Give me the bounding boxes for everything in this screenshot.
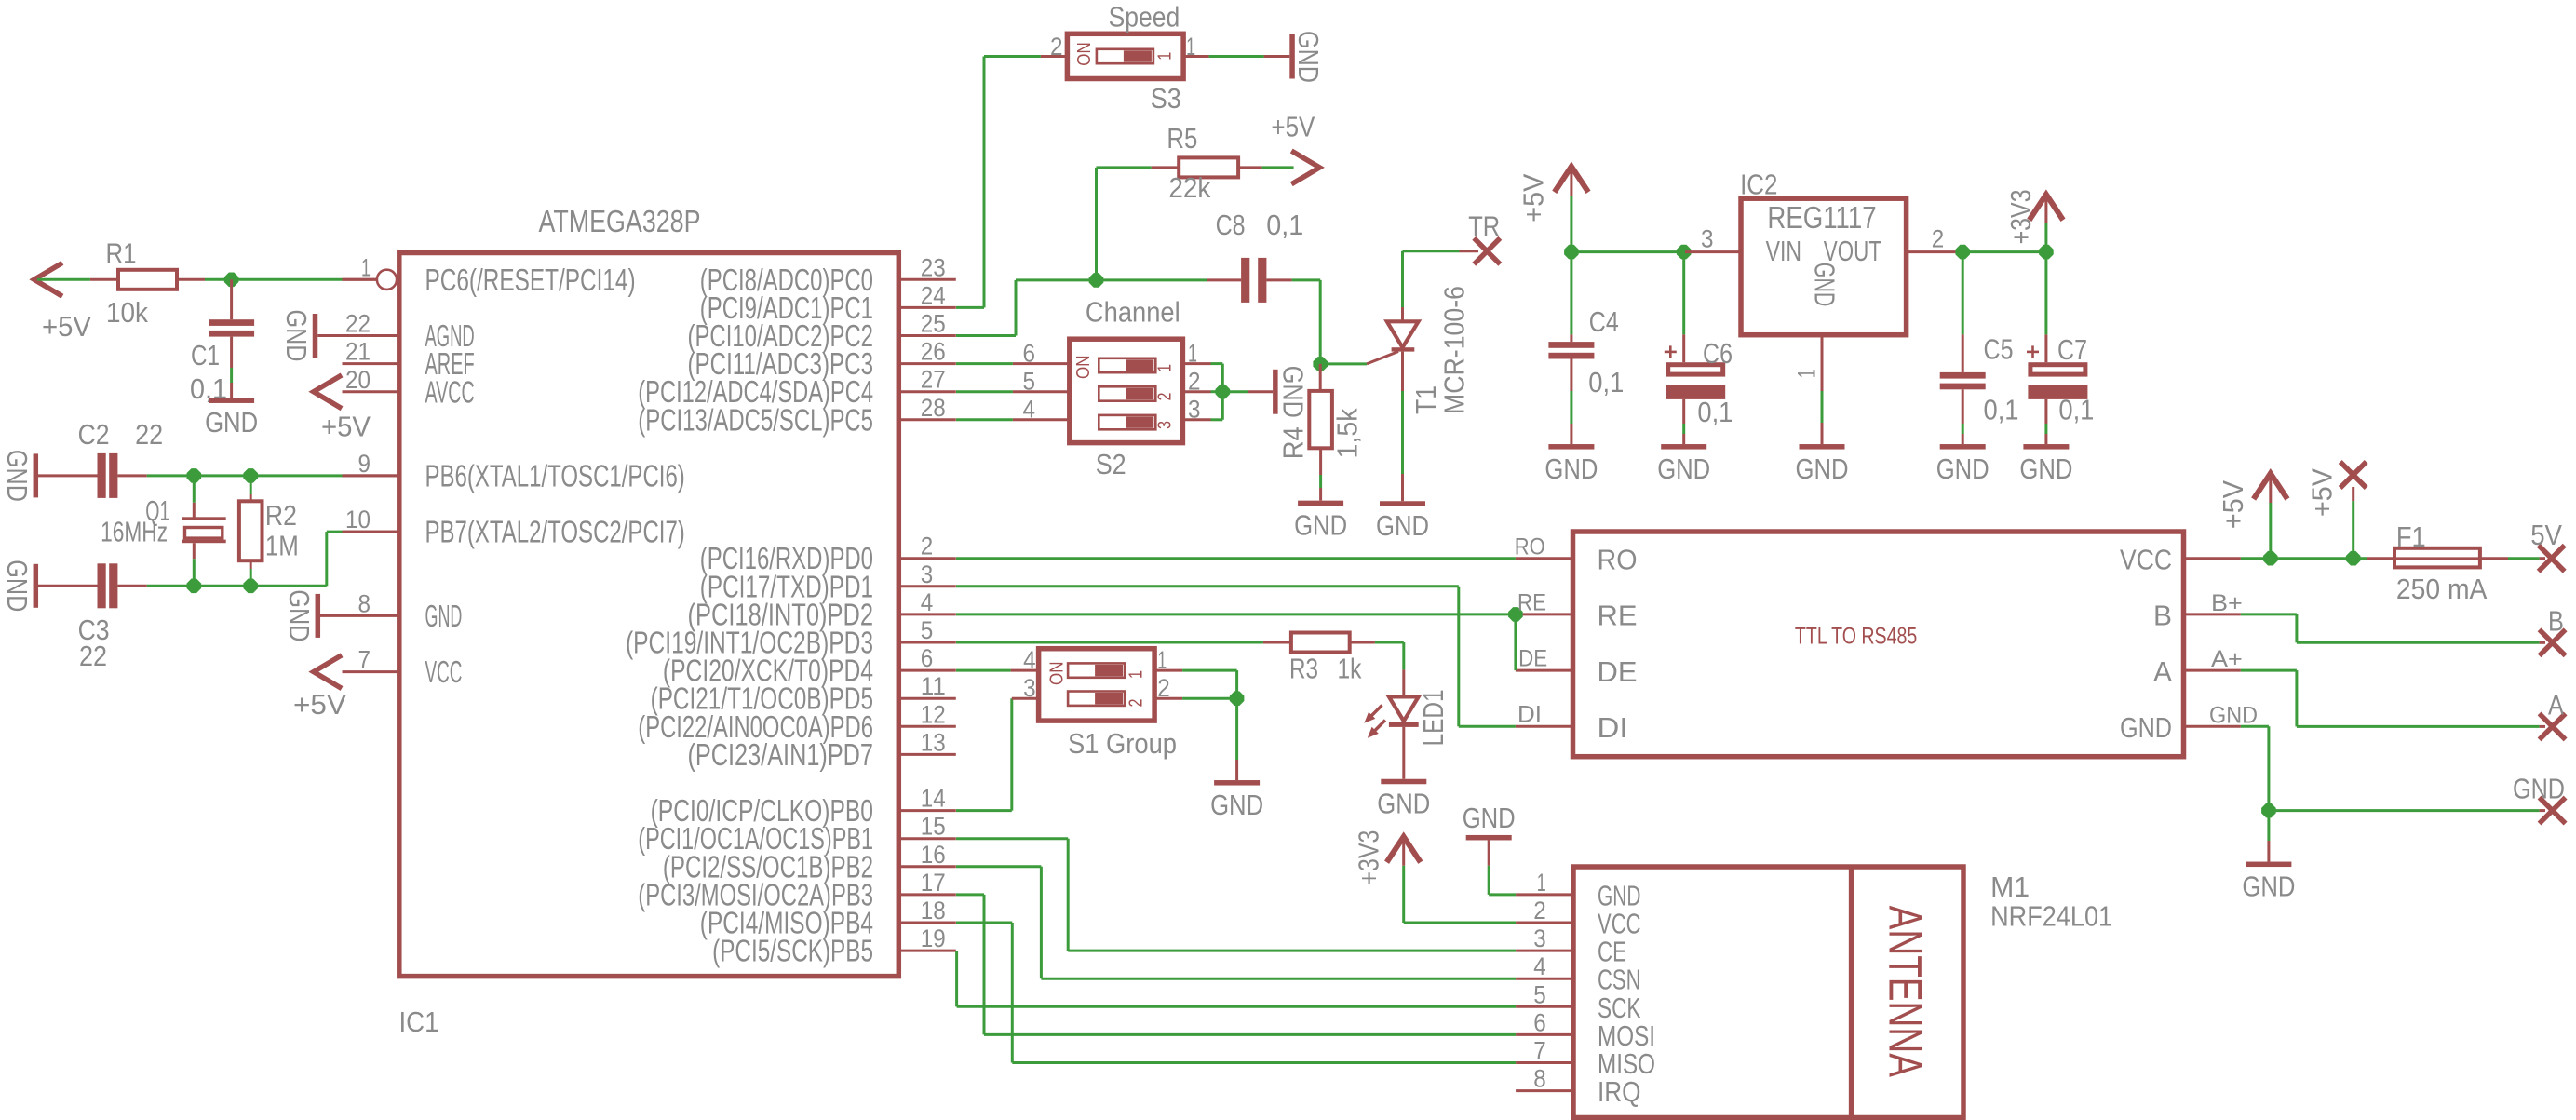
wire C4 junction to C6 junction xyxy=(1571,250,1684,253)
ground C3 xyxy=(34,564,39,608)
IC1 pin 16 (PCI2/SS/OC1B)PB2 stub xyxy=(898,865,956,868)
wire TR net xyxy=(1403,250,1460,252)
IC1 pin 21 AREF stub xyxy=(343,362,399,365)
switch S1 Group xyxy=(1011,669,1039,672)
svg-text:GND: GND xyxy=(1376,509,1429,542)
svg-text:ON: ON xyxy=(1046,662,1067,686)
wire R4 to GND xyxy=(1319,475,1322,488)
power arrow +3V3 at C7 xyxy=(2030,195,2061,218)
svg-text:1,5k: 1,5k xyxy=(1331,408,1364,458)
svg-text:23: 23 xyxy=(921,253,946,281)
wire C2 to Q1 junction xyxy=(147,474,195,477)
svg-text:9: 9 xyxy=(358,450,371,478)
wire C5 junction to C7 junction xyxy=(1962,250,2046,253)
ground at GND pin 8 xyxy=(316,594,321,638)
wire XTAL1 to IC pin 9 xyxy=(250,474,342,477)
wire S2 pin3 jog xyxy=(1211,418,1223,421)
svg-text:3: 3 xyxy=(1701,224,1714,252)
wire R2 bottom to junction xyxy=(250,569,252,586)
svg-text:+5V: +5V xyxy=(293,688,346,721)
IC1 pin 6 (PCI20/XCK/T0)PD4 stub xyxy=(898,669,956,672)
svg-text:0,1: 0,1 xyxy=(1984,394,2019,426)
IC1 pin 10 PB7(XTAL2/TOSC2/PCI7) stub xyxy=(343,531,399,533)
svg-text:2: 2 xyxy=(1154,393,1175,401)
svg-text:GND: GND xyxy=(280,310,313,362)
svg-text:20: 20 xyxy=(345,366,371,394)
IC1 pin 24 (PCI9/ADC1)PC1 stub xyxy=(898,306,956,309)
LED LED1 xyxy=(1402,669,1405,696)
junction +5V at C4 xyxy=(1564,245,1579,260)
RS485 pin B right lead xyxy=(2184,613,2241,615)
wire pin 24 to S3 vertical xyxy=(956,306,984,309)
IC1 pin 7 VCC stub xyxy=(343,670,399,673)
NRF pin 6 MOSI stub xyxy=(1516,1033,1573,1036)
IC IC1 ATMEGA328P box xyxy=(399,253,899,977)
RS485 pin VCC right lead xyxy=(2184,557,2241,560)
svg-text:26: 26 xyxy=(921,338,946,366)
svg-text:F1: F1 xyxy=(2396,520,2426,553)
IC1 pin 25 (PCI10/ADC2)PC2 stub xyxy=(898,334,956,337)
wire +3V3 riser to NRF VCC xyxy=(1402,866,1405,923)
svg-text:22k: 22k xyxy=(1168,171,1210,204)
svg-text:1: 1 xyxy=(361,253,371,281)
wire NRF GND riser xyxy=(1488,866,1490,895)
svg-text:250 mA: 250 mA xyxy=(2396,573,2488,605)
svg-text:2: 2 xyxy=(1157,674,1170,702)
RS485 pin RE lead xyxy=(1516,613,1573,615)
wire VCC junction to +5V-X junction xyxy=(2271,557,2353,560)
svg-text:8: 8 xyxy=(1533,1065,1546,1093)
wire junction to Q1 top xyxy=(193,476,196,503)
junction R4/T1 gate xyxy=(1313,357,1328,371)
svg-text:27: 27 xyxy=(921,366,946,394)
wire +3V3 arrow to junction xyxy=(2044,223,2047,252)
svg-text:13: 13 xyxy=(921,728,946,756)
svg-text:R4: R4 xyxy=(1277,426,1310,459)
wire CE riser xyxy=(1067,839,1070,951)
svg-text:19: 19 xyxy=(921,924,946,952)
IC1 pin 14 (PCI0/ICP/CLKO)PB0 stub xyxy=(898,809,956,812)
svg-text:ON: ON xyxy=(1074,42,1095,66)
svg-text:18: 18 xyxy=(921,897,946,924)
svg-text:IC2: IC2 xyxy=(1740,169,1777,201)
svg-text:22: 22 xyxy=(345,310,371,338)
svg-text:1: 1 xyxy=(1186,33,1195,61)
ground below C1 xyxy=(209,398,254,403)
IC1 pin 17 (PCI3/MOSI/OC2A)PB3 stub xyxy=(898,893,956,896)
RS485 pin DE lead xyxy=(1516,669,1573,672)
svg-text:+5V: +5V xyxy=(2305,468,2338,517)
ground at S3 xyxy=(1264,55,1290,58)
NRF pin 3 CE stub xyxy=(1516,950,1573,952)
svg-text:DE: DE xyxy=(1518,645,1547,671)
svg-text:C6: C6 xyxy=(1703,337,1733,370)
svg-text:(PCI13/ADC5/SCL)PC5: (PCI13/ADC5/SCL)PC5 xyxy=(638,402,873,437)
svg-text:12: 12 xyxy=(921,700,946,728)
svg-text:GND: GND xyxy=(1936,452,1989,485)
terminal X A xyxy=(2540,713,2566,739)
ground at S2 xyxy=(1222,390,1248,393)
svg-text:C4: C4 xyxy=(1589,305,1619,338)
wire XTAL2 jog to pin 10 horizontal xyxy=(250,585,327,587)
ground at GND rail xyxy=(2246,862,2291,868)
power arrow +5V at AVCC pin 20 xyxy=(314,376,340,407)
junction R5 branch xyxy=(1089,273,1104,288)
no-connect X at TR xyxy=(1474,238,1500,264)
wire Q1 to R2 junction top xyxy=(194,474,250,477)
wire net B riser xyxy=(2295,614,2298,642)
wire S1 pin1 jog xyxy=(1182,669,1237,672)
svg-text:AVCC: AVCC xyxy=(425,374,475,409)
svg-text:3: 3 xyxy=(1023,674,1036,702)
wire XTAL2 to IC pin 10 xyxy=(327,531,343,533)
IC1 pin 1 PC6(/RESET/PCI14) stub xyxy=(343,278,377,281)
wire C6 junction to IC2 pin 3 xyxy=(1684,250,1685,253)
wire IC pin 14 to S1 riser horizontal xyxy=(956,809,1012,812)
wire corner down to R4 junction xyxy=(1319,280,1322,364)
wire S2 pin1 jog xyxy=(1211,362,1223,365)
svg-text:5V: 5V xyxy=(2530,519,2562,551)
wire net RO from IC pin 2 xyxy=(956,557,1516,560)
svg-text:IRQ: IRQ xyxy=(1598,1075,1641,1108)
wire S2 pin2 jog xyxy=(1211,390,1223,393)
terminal X 5V xyxy=(2539,546,2565,572)
svg-text:+5V: +5V xyxy=(1517,173,1550,222)
svg-text:15: 15 xyxy=(921,813,946,841)
switch S2 Channel xyxy=(1013,362,1070,365)
NRF pin 1 GND stub xyxy=(1516,893,1573,896)
junction VCC at X riser xyxy=(2346,551,2361,566)
svg-text:1: 1 xyxy=(1188,340,1197,368)
wire R5 to +5V arrow xyxy=(1262,166,1294,169)
svg-text:GND: GND xyxy=(1294,508,1347,541)
wire SCK to NRF pin 5 xyxy=(957,1005,1517,1008)
wire junction to R2 top xyxy=(250,476,252,494)
resistor R4 xyxy=(1319,364,1322,391)
capacitor C2 xyxy=(38,474,98,477)
svg-text:6: 6 xyxy=(1023,340,1036,368)
svg-text:25: 25 xyxy=(921,310,946,338)
svg-text:C1: C1 xyxy=(191,339,220,371)
wire IC pin 17 to MOSI horizontal xyxy=(956,893,984,896)
thyristor T1 MCR-100-6 xyxy=(1367,352,1398,364)
wire junction up to R5 xyxy=(1095,168,1098,280)
wire IC pin 18 to MISO horizontal xyxy=(956,922,1012,924)
ground below IC2 xyxy=(1800,444,1845,450)
IC1 pin 28 (PCI13/ADC5/SCL)PC5 stub xyxy=(898,418,956,421)
wire net B to terminal xyxy=(2297,641,2540,644)
svg-text:B: B xyxy=(2153,600,2172,632)
capacitor C7 xyxy=(2044,252,2047,335)
svg-text:MCR-100-6: MCR-100-6 xyxy=(1437,286,1470,414)
wire C3 to Q1 junction bottom xyxy=(147,585,195,587)
wire C5 to GND xyxy=(1962,424,1964,434)
svg-text:M1: M1 xyxy=(1990,870,2030,903)
svg-text:ANTENNA: ANTENNA xyxy=(1880,906,1932,1078)
svg-text:1k: 1k xyxy=(1338,653,1362,685)
NRF pin 4 CSN stub xyxy=(1516,978,1573,980)
svg-text:RE: RE xyxy=(1517,589,1546,615)
IC1 pin 19 (PCI5/SCK)PB5 stub xyxy=(898,950,956,952)
wire CE to NRF pin 3 xyxy=(1068,950,1516,952)
svg-text:GND: GND xyxy=(1809,263,1841,307)
svg-text:22: 22 xyxy=(79,640,107,672)
junction XTAL1 at Q1 xyxy=(187,468,202,483)
svg-text:4: 4 xyxy=(1023,646,1036,674)
svg-text:TR: TR xyxy=(1468,210,1500,243)
wire S1 right bus down xyxy=(1235,670,1238,698)
wire T1 cathode down xyxy=(1401,391,1404,474)
svg-text:0,1: 0,1 xyxy=(1266,209,1303,241)
junction at C5 xyxy=(1955,245,1970,260)
wire net A to terminal xyxy=(2297,725,2540,728)
svg-text:0,1: 0,1 xyxy=(1588,366,1624,398)
fuse F1 250mA xyxy=(2367,557,2394,560)
wire MOSI riser xyxy=(983,895,986,1035)
wire S2 right bus vertical xyxy=(1221,364,1224,420)
svg-text:11: 11 xyxy=(921,672,946,700)
svg-text:GND: GND xyxy=(2209,702,2258,728)
svg-text:ON: ON xyxy=(1073,356,1094,380)
wire S3 vertical riser xyxy=(983,57,986,308)
capacitor C5 xyxy=(1962,252,1964,335)
svg-text:Speed: Speed xyxy=(1109,1,1180,34)
svg-text:16MHz: 16MHz xyxy=(101,516,168,548)
svg-text:1: 1 xyxy=(1157,646,1167,674)
ground below LED1 xyxy=(1381,779,1426,785)
wire junction to pin1 xyxy=(232,278,343,281)
LED1 light arrow 1 xyxy=(1369,706,1382,719)
wire RS485 VCC to junction xyxy=(2241,557,2271,560)
wire IC pin 15 to CE horizontal xyxy=(956,837,1068,840)
IC1 pin 18 (PCI4/MISO)PB4 stub xyxy=(898,922,956,924)
NRF pin 5 SCK stub xyxy=(1516,1005,1573,1008)
svg-text:3: 3 xyxy=(1188,396,1201,424)
svg-text:R2: R2 xyxy=(265,499,297,532)
wire S1 pin 3 riser xyxy=(1010,698,1013,810)
wire net GND jog 1 xyxy=(2241,725,2269,728)
svg-text:GND: GND xyxy=(205,406,258,439)
wire C1 to GND xyxy=(230,368,233,383)
svg-text:DI: DI xyxy=(1598,711,1628,744)
svg-text:21: 21 xyxy=(345,338,371,366)
wire IC pin 16 to CSN horizontal xyxy=(956,865,1041,868)
IC2 pin 2 lead xyxy=(1907,250,1962,253)
ground below C6 xyxy=(1661,444,1706,450)
IC1 pin 11 (PCI21/T1/OC0B)PD5 stub xyxy=(898,697,956,700)
svg-text:A: A xyxy=(2548,688,2564,721)
svg-text:REG1117: REG1117 xyxy=(1767,200,1876,235)
svg-text:GND: GND xyxy=(283,589,316,641)
svg-text:3: 3 xyxy=(1154,421,1175,429)
wire riser to S3 pin 2 xyxy=(984,55,1041,58)
svg-text:1M: 1M xyxy=(265,529,299,561)
wire net B jog 1 xyxy=(2241,613,2297,615)
wire net RE from IC pin 4 xyxy=(956,613,1516,615)
svg-text:B: B xyxy=(2548,604,2564,637)
wire net DI to pin xyxy=(1459,725,1516,728)
svg-text:RE: RE xyxy=(1598,600,1638,632)
power arrow +5V at VCC pin 7 xyxy=(314,656,340,687)
wire pin 27 to S2 pin 5 xyxy=(956,390,1013,393)
wire SCK riser at IC pin 19 xyxy=(955,951,958,1006)
power arrow +5V at VCC rail xyxy=(2255,474,2286,497)
svg-text:16: 16 xyxy=(921,841,946,869)
svg-text:C7: C7 xyxy=(2057,333,2087,366)
capacitor C1 xyxy=(230,279,233,319)
svg-text:PC6(/RESET/PCI14): PC6(/RESET/PCI14) xyxy=(425,263,636,297)
svg-text:+5V: +5V xyxy=(321,411,371,443)
no-connect X at +5V xyxy=(2340,462,2367,488)
svg-text:GND: GND xyxy=(1292,31,1325,83)
wire GND junction down to ground xyxy=(2267,811,2270,841)
wire pin 28 to S2 pin 4 xyxy=(956,418,1013,421)
svg-text:R5: R5 xyxy=(1167,122,1197,155)
svg-text:GND: GND xyxy=(1463,802,1516,834)
svg-text:5: 5 xyxy=(1533,980,1546,1008)
wire S1 common to GND xyxy=(1235,698,1238,760)
svg-text:GND: GND xyxy=(1657,452,1710,485)
power arrow +5V at R5 xyxy=(1294,152,1320,182)
RS485 pin A right lead xyxy=(2184,669,2241,672)
svg-text:GND: GND xyxy=(1377,788,1430,820)
wire XTAL2 jog vertical xyxy=(325,532,328,586)
wire RE junction down to DE xyxy=(1514,614,1517,670)
wire CSN to NRF pin 4 xyxy=(1041,978,1516,980)
svg-text:S3: S3 xyxy=(1151,82,1181,115)
svg-text:IC1: IC1 xyxy=(399,1005,439,1038)
svg-text:7: 7 xyxy=(1533,1037,1546,1065)
svg-text:GND: GND xyxy=(1,560,34,612)
svg-text:RO: RO xyxy=(1598,544,1638,576)
svg-text:GND: GND xyxy=(2019,452,2072,485)
IC1 pin 26 (PCI11/ADC3)PC3 stub xyxy=(898,362,956,365)
ground C2 xyxy=(34,453,39,497)
wire MISO to NRF pin 7 xyxy=(1012,1061,1516,1064)
IC1 pin 27 (PCI12/ADC4/SDA)PC4 stub xyxy=(898,390,956,393)
wire riser to R5 xyxy=(1097,166,1152,169)
ground below C5 xyxy=(1940,444,1986,450)
wire +5V arrow to R1 xyxy=(37,278,90,281)
wire MISO riser xyxy=(1011,923,1014,1063)
svg-text:VIN: VIN xyxy=(1766,235,1801,267)
ground below C4 xyxy=(1548,444,1594,450)
capacitor C3 xyxy=(38,585,98,587)
svg-text:ATMEGA328P: ATMEGA328P xyxy=(539,204,701,238)
svg-text:DI: DI xyxy=(1517,702,1542,728)
junction S1 common xyxy=(1230,691,1245,706)
ground below S1 xyxy=(1214,780,1260,786)
svg-text:GND: GND xyxy=(1796,452,1849,485)
resistor R1 xyxy=(90,278,118,281)
svg-text:2: 2 xyxy=(1126,699,1146,708)
module M1 NRF24L01 box xyxy=(1573,867,1963,1118)
svg-text:C2: C2 xyxy=(78,418,110,451)
wire net GND to terminal xyxy=(2269,809,2540,812)
wire pin 25 jog right xyxy=(956,334,1016,337)
terminal X B xyxy=(2540,629,2566,655)
wire C4 to GND xyxy=(1570,391,1572,424)
svg-text:B+: B+ xyxy=(2211,590,2243,616)
IC1 pin 5 (PCI19/INT1/OC2B)PD3 stub xyxy=(898,641,956,644)
svg-text:3: 3 xyxy=(921,560,934,588)
wire F1 to 5V terminal xyxy=(2508,557,2540,560)
svg-text:2: 2 xyxy=(1932,225,1945,253)
junction XTAL1 at R2 xyxy=(243,468,258,483)
IC1 pin 8 GND stub xyxy=(343,614,399,617)
svg-text:VCC: VCC xyxy=(2120,544,2172,576)
svg-text:3: 3 xyxy=(1533,924,1546,952)
svg-text:C5: C5 xyxy=(1984,333,2014,366)
NRF antenna divider xyxy=(1849,867,1854,1118)
junction at C7 xyxy=(2039,245,2054,260)
wire +5V arrow down to junction xyxy=(1570,196,1572,252)
IC1 pin 9 PB6(XTAL1/TOSC1/PCI6) stub xyxy=(343,474,399,477)
svg-text:17: 17 xyxy=(921,869,946,897)
svg-text:14: 14 xyxy=(921,785,946,813)
wire net GND riser xyxy=(2267,726,2270,810)
wire junction to C8 xyxy=(1097,278,1207,281)
resistor R3 xyxy=(1263,641,1291,644)
wire CSN riser xyxy=(1040,867,1043,978)
svg-text:0,1: 0,1 xyxy=(1697,396,1733,428)
wire VCC to fuse F1 xyxy=(2353,557,2367,560)
RS485 pin GND right lead xyxy=(2184,725,2241,728)
svg-text:2: 2 xyxy=(1188,368,1201,396)
wire S1 pin2 jog xyxy=(1182,697,1237,700)
IC1 pin 2 (PCI16/RXD)PD0 stub xyxy=(898,557,956,560)
svg-text:R3: R3 xyxy=(1289,653,1318,685)
svg-text:1: 1 xyxy=(1537,869,1546,897)
wire net DI riser xyxy=(1457,587,1460,727)
svg-text:+3V3: +3V3 xyxy=(1352,830,1384,885)
svg-text:RO: RO xyxy=(1515,533,1545,560)
wire Q1 bottom to junction xyxy=(193,559,196,586)
svg-text:6: 6 xyxy=(1533,1008,1546,1036)
wire MOSI to NRF pin 6 xyxy=(984,1033,1516,1036)
wire C6 to GND xyxy=(1682,424,1685,434)
wire IC pin 6 to S1 pin 4 xyxy=(956,669,1011,672)
svg-text:GND: GND xyxy=(1,450,34,502)
wire Q1 to R2 junction bottom xyxy=(194,585,250,587)
svg-text:7: 7 xyxy=(358,646,371,674)
NRF pin 8 IRQ stub xyxy=(1516,1089,1573,1092)
svg-text:1: 1 xyxy=(1154,364,1175,372)
RS485 pin DI lead xyxy=(1516,725,1573,728)
wire NRF GND to pin 1 xyxy=(1489,893,1516,896)
wire pin 26 to S2 pin 6 xyxy=(956,362,1013,365)
IC1 pin 20 AVCC stub xyxy=(343,390,399,393)
svg-text:5: 5 xyxy=(1023,368,1036,396)
IC2 pin 1 lead xyxy=(1821,335,1824,391)
svg-text:PB6(XTAL1/TOSC1/PCI6): PB6(XTAL1/TOSC1/PCI6) xyxy=(425,458,685,493)
IC1 pin 13 (PCI23/AIN1)PD7 stub xyxy=(898,753,956,756)
svg-text:22: 22 xyxy=(135,418,163,451)
wire +3V3 to NRF pin 2 xyxy=(1404,922,1516,924)
svg-text:GND: GND xyxy=(1210,789,1263,821)
wire pin25 row to R5 junction xyxy=(1016,278,1097,281)
svg-text:S2: S2 xyxy=(1096,448,1126,480)
junction VCC at arrow xyxy=(2263,551,2278,566)
IC1 pin 22 AGND stub xyxy=(343,334,399,337)
voltage regulator IC2 REG1117 box xyxy=(1685,250,1741,253)
terminal X GND xyxy=(2540,798,2566,824)
svg-text:8: 8 xyxy=(358,589,371,617)
ground at AGND pin 22 xyxy=(313,314,318,358)
svg-text:(PCI5/SCK)PB5: (PCI5/SCK)PB5 xyxy=(712,934,873,968)
wire IC pin 5 to R3 xyxy=(956,641,1263,644)
module TTL-to-RS485 box xyxy=(1573,532,2184,757)
